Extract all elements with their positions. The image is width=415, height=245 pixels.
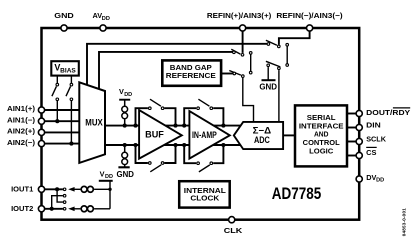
arrow IOUT1 current (68, 187, 74, 192)
wire IOUT crossover B (52, 194, 66, 208)
switch S3 BUF bypass top (133, 99, 177, 127)
svg-text:REFIN(+)/AIN3(+): REFIN(+)/AIN3(+) (207, 11, 272, 20)
arrow IOUT2 current (68, 207, 74, 212)
wire serial to DIN (348, 127, 356, 129)
svg-text:AIN1(−): AIN1(−) (7, 115, 36, 124)
svg-text:Σ−Δ: Σ−Δ (253, 125, 272, 135)
jumper J1 (249, 52, 252, 74)
svg-text:ADC: ADC (254, 135, 270, 145)
contact IOUT2 switch (63, 208, 66, 211)
pin DOUT/RDY (356, 108, 410, 117)
switch S1 VBIAS to AIN1 (52, 77, 59, 124)
pin AVDD top (93, 11, 110, 31)
wire AIN2(+) (42, 131, 80, 133)
svg-text:BUF: BUF (145, 130, 164, 140)
svg-text:GND: GND (259, 83, 277, 92)
svg-text:SCLK: SCLK (366, 134, 387, 143)
switch S2 VBIAS to AIN2 (66, 77, 73, 146)
pin REFIN(+)/AIN3(+) (207, 11, 272, 31)
wire serial to DOUT (348, 113, 356, 115)
switch S4 BUF bypass bottom (133, 143, 177, 172)
switch SB REFIN+ to AVDD rail2 (231, 49, 244, 56)
switch S5 IN-AMP bypass top (182, 99, 225, 127)
wire REFIN(-) to switch (279, 30, 310, 45)
box INTERNAL CLOCK (179, 181, 230, 207)
buffer BUF (139, 110, 182, 159)
wire AVDD rail 2 (99, 52, 234, 90)
wire AIN1(+) (42, 109, 80, 111)
svg-text:IOUT2: IOUT2 (11, 204, 33, 213)
svg-text:IOUT1: IOUT1 (11, 184, 33, 193)
current source I2 GND bottom (117, 143, 134, 179)
pin IOUT1 (11, 184, 45, 193)
wire IOUT crossover A (57, 189, 66, 203)
svg-text:LOGIC: LOGIC (309, 146, 333, 155)
wire AVDD rail 1 (87, 44, 268, 86)
box VBIAS (51, 61, 79, 75)
wire MUX output 1 (104, 125, 244, 127)
chip outer border (42, 28, 360, 220)
svg-text:DD: DD (376, 178, 384, 184)
svg-text:MUX: MUX (85, 117, 103, 127)
wire IOUT2 (42, 208, 63, 210)
pin AIN1(+) (7, 104, 45, 113)
pin CS (356, 147, 377, 158)
wire AIN1(-) (42, 120, 80, 122)
amplifier IN-AMP (189, 111, 229, 159)
svg-text:DV: DV (366, 173, 376, 182)
pin CLK (224, 217, 243, 235)
switch SC to GND and ADC ref (266, 61, 280, 122)
pin REFIN(-)/AIN3(-) (276, 11, 343, 31)
box BAND GAP REFERENCE (162, 60, 221, 85)
pin DIN (356, 120, 381, 130)
current source I1 VDD top (119, 87, 132, 127)
pin IOUT2 (11, 204, 45, 213)
node IOUT1 (55, 187, 59, 191)
switch SD bandgap to ADC ref (222, 71, 254, 123)
contact IOUT1 switch (63, 188, 66, 191)
switch SA REFIN- to AVDD rail1 (266, 40, 280, 47)
svg-text:REFERENCE: REFERENCE (166, 71, 216, 80)
svg-text:AIN1(+): AIN1(+) (7, 104, 36, 113)
svg-text:CLK: CLK (224, 226, 243, 235)
wire serial to CS (348, 155, 356, 157)
wire serial to SCLK (348, 141, 356, 143)
wire AIN2(-) (42, 143, 80, 145)
switch S6 IN-AMP bypass bottom (182, 143, 225, 172)
svg-text:AD7785: AD7785 (272, 184, 321, 203)
svg-text:AV: AV (93, 11, 103, 20)
svg-text:DOUT/RDY: DOUT/RDY (366, 108, 410, 117)
svg-text:DIN: DIN (366, 120, 381, 129)
wire REFIN(+) vertical (242, 30, 244, 53)
wire ADC to serial box (283, 134, 295, 136)
wire MUX output 2 (104, 144, 244, 146)
pin GND top (54, 11, 74, 31)
svg-text:AIN2(+): AIN2(+) (7, 127, 36, 136)
wire IOUT1 (42, 188, 63, 190)
svg-text:CLOCK: CLOCK (190, 194, 220, 203)
IOUT2 circuit (42, 206, 111, 212)
pin SCLK (356, 134, 387, 144)
current source IOUT2 (81, 206, 87, 212)
svg-text:DD: DD (124, 92, 132, 98)
supply VDD rail for IOUT (99, 169, 113, 208)
mux MUX (79, 82, 105, 163)
svg-text:BIAS: BIAS (60, 69, 76, 75)
pin DVDD (356, 173, 384, 184)
svg-text:DD: DD (105, 174, 113, 180)
pin AIN2(-) (7, 138, 45, 147)
svg-text:GND: GND (117, 170, 134, 179)
pin AIN1(-) (7, 115, 45, 124)
svg-text:IN-AMP: IN-AMP (192, 130, 217, 140)
adc Sigma-Delta ADC (234, 122, 283, 149)
current source IOUT1 (81, 186, 87, 192)
ground GND under switch SC (259, 80, 277, 92)
svg-text:DD: DD (102, 16, 110, 22)
node IOUT2 (50, 207, 54, 211)
svg-text:CS: CS (366, 148, 376, 157)
svg-text:REFIN(−)/AIN3(−): REFIN(−)/AIN3(−) (276, 11, 343, 20)
box SERIAL INTERFACE AND CONTROL LOGIC (295, 105, 347, 166)
svg-text:04853-0-001: 04853-0-001 (401, 208, 406, 236)
IOUT1 circuit (42, 186, 111, 192)
jumper J2 (286, 43, 289, 66)
pin AIN2(+) (7, 127, 45, 136)
svg-text:V: V (100, 169, 105, 178)
svg-text:AIN2(−): AIN2(−) (7, 138, 36, 147)
svg-text:GND: GND (54, 11, 74, 20)
